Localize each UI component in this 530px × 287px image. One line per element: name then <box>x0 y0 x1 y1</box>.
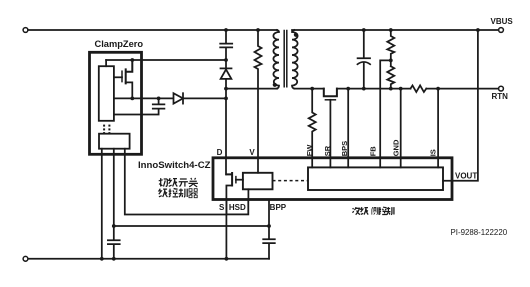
wire controller to HSD <box>247 189 249 200</box>
node junction divider mid <box>389 59 393 63</box>
char ji3 <box>159 189 168 197</box>
wire clampzero pin3 <box>125 149 227 215</box>
op-amp U2 clampzero driver block <box>99 134 130 149</box>
wire primary bottom <box>226 88 277 90</box>
wire BPS <box>347 89 349 168</box>
node RTN terminal <box>499 86 504 91</box>
ClampZero box <box>90 52 142 154</box>
transistor Q1 clamp FET <box>126 60 133 83</box>
node junction output-cap top <box>362 28 366 32</box>
capacitor clamp C1 <box>220 30 232 60</box>
node junction S-rail <box>225 257 229 261</box>
wire clampzero top wire <box>106 59 226 61</box>
resistor R1 V-pin series <box>255 30 262 173</box>
wire BPP pin <box>268 200 270 240</box>
svg-text:HSD: HSD <box>229 203 246 212</box>
char ji4 <box>361 207 369 214</box>
op-amp U4 primary controller block <box>243 173 273 190</box>
node junction divider top <box>389 28 393 32</box>
svg-text:GND: GND <box>392 139 401 156</box>
svg-text:S: S <box>219 203 225 212</box>
wire dashed comm link <box>273 180 309 182</box>
char chu <box>159 178 168 186</box>
node clamp node dot <box>224 58 228 62</box>
wire clampzero pin1 <box>101 149 103 259</box>
node junction FW <box>310 87 314 91</box>
node junction drain-clampdiode <box>224 97 228 101</box>
label chinese secondary side control <box>353 207 394 215</box>
label chinese primary switch & controller <box>159 178 198 198</box>
op-amp U3 InnoSwitch4-CZ box <box>213 158 452 200</box>
wire FB tap <box>380 60 391 167</box>
capacitor C3 BPP <box>263 239 275 258</box>
wire clampzero pin2 <box>113 149 115 240</box>
char zhi <box>179 189 188 198</box>
char kai <box>179 179 188 187</box>
node junction C2-rail <box>112 257 116 261</box>
wire dotted link pins <box>103 125 110 135</box>
node secondary polarity dot <box>294 33 298 37</box>
char qi <box>188 189 198 198</box>
wire GND <box>400 89 402 168</box>
capacitor C7 <box>114 98 164 114</box>
node junction BPP wire <box>267 224 271 228</box>
transformer T1 core <box>284 31 287 87</box>
svg-text:InnoSwitch4-CZ: InnoSwitch4-CZ <box>138 160 211 171</box>
svg-text:BPS: BPS <box>340 141 349 156</box>
wire primary top rail <box>28 29 277 31</box>
node junction GND <box>399 87 403 91</box>
node junction output cap bottom <box>362 87 366 91</box>
char ce <box>372 207 379 215</box>
wire drain column <box>225 79 227 174</box>
wire IS <box>437 89 439 168</box>
svg-text:VBUS: VBUS <box>491 17 514 26</box>
char guan <box>189 178 198 187</box>
transformer T1 primary winding <box>273 30 279 89</box>
diode D2 series (right) <box>174 93 184 103</box>
transistor Q3 SR FET <box>324 89 337 97</box>
wire VOUT riser <box>443 30 478 181</box>
diode D1 clamp (up) <box>225 60 227 68</box>
node junction V-resistor top <box>256 28 260 32</box>
svg-text:RTN: RTN <box>492 92 509 101</box>
node input+ terminal <box>23 28 28 33</box>
wire bottom rail <box>28 258 269 260</box>
resistor R5 IS sense <box>411 85 427 92</box>
svg-text:FB: FB <box>369 146 378 157</box>
transistor Q2 power FET <box>226 173 232 186</box>
svg-text:VOUT: VOUT <box>455 171 477 180</box>
wire controller top stub <box>105 60 107 66</box>
svg-text:D: D <box>217 148 223 157</box>
transformer T1 secondary winding <box>292 30 298 89</box>
node junction drain-transformer <box>224 87 228 91</box>
svg-text:ClampZero: ClampZero <box>95 39 144 49</box>
resistor R3 divider upper <box>387 30 394 66</box>
wire RTN rail <box>294 88 410 90</box>
node primary polarity dot <box>273 83 277 87</box>
char kong2 <box>379 207 387 214</box>
svg-text:BPP: BPP <box>270 203 287 212</box>
resistor R2 FW <box>309 89 316 168</box>
wire pin2 to BPP <box>114 225 269 227</box>
svg-text:PI-9288-122220: PI-9288-122220 <box>451 228 508 237</box>
node junction VOUT riser top <box>476 28 480 32</box>
svg-text:IS: IS <box>429 149 438 156</box>
node junction pin2-BPP wire <box>112 224 116 228</box>
char ji2 <box>169 178 178 186</box>
node VBUS terminal <box>499 28 504 33</box>
char zhi2 <box>386 207 394 215</box>
node junction BPS <box>346 87 350 91</box>
op-amp U6 secondary controller block <box>308 167 443 190</box>
node junction divider bottom <box>389 87 393 91</box>
node junction Q1 drain <box>130 58 134 62</box>
wire secondary top rail <box>292 29 499 31</box>
capacitor C4 output (polarized) <box>358 30 370 89</box>
node junction clamp-cap top <box>224 28 228 32</box>
node junction C7 top <box>157 97 161 101</box>
wire clamp return <box>114 97 226 99</box>
char kong <box>169 189 178 197</box>
resistor R4 divider lower <box>387 66 394 88</box>
node input- terminal <box>23 256 28 261</box>
node junction IS <box>436 87 440 91</box>
op-amp U5 HSD block <box>226 200 248 215</box>
char ci <box>353 207 360 214</box>
svg-text:FW: FW <box>305 144 314 157</box>
svg-text:V: V <box>249 148 255 157</box>
op-amp U1 clampzero controller block <box>99 66 114 121</box>
svg-text:SR: SR <box>323 145 332 156</box>
node junction Q1 source <box>130 97 134 101</box>
node junction pin1-rail <box>100 257 104 261</box>
capacitor C2 <box>108 240 120 258</box>
